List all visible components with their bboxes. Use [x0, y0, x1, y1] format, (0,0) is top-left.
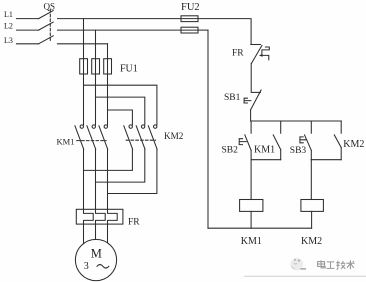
wire KM2 contact f output joining phase C: [108, 149, 157, 193]
svg-text:KM1: KM1: [241, 236, 262, 247]
wire KM2 contact d output joining phase A: [84, 149, 133, 170]
wire crossover phase B to KM2 contact e: [96, 97, 145, 125]
coil KM2 body: [301, 200, 324, 212]
svg-text:KM1: KM1: [57, 137, 75, 147]
thermal relay FR heater element phase C: [108, 209, 118, 224]
switch QS pole 3 blade: [39, 36, 54, 44]
wire SB1 to control rail: [250, 110, 252, 121]
contactor KM1 main contact 2 circle: [92, 125, 95, 128]
fuse FU2a link wire: [181, 18, 198, 20]
contactor KM2 linkage dashed: [126, 139, 155, 141]
fuse FU1 phase C body: [104, 59, 112, 74]
contactor KM1 main contact 2 blade: [87, 126, 96, 149]
wire control bottom bus: [208, 227, 312, 229]
wire merge bar SB2 KM1aux: [251, 159, 281, 161]
wire phase B FR to motor: [95, 224, 97, 239]
wire L1 incoming: [17, 18, 39, 20]
fuse FU1 phase A body: [80, 59, 88, 74]
contact KM2 auxiliary NO blade: [334, 135, 341, 148]
svg-text:L2: L2: [4, 21, 13, 30]
watermark text dian gong ji shu: [318, 260, 355, 269]
wire L2 fuse FU2b output to control left rail corner: [198, 29, 208, 31]
contactor KM2 main contact f circle: [154, 125, 157, 128]
svg-text:M: M: [91, 246, 102, 260]
svg-text:FR: FR: [128, 218, 140, 228]
wire phase C FR to motor: [107, 224, 109, 243]
switch QS linkage dashed: [49, 10, 51, 41]
wire phase C lower KM1 to FR heater: [107, 149, 109, 209]
contact KM1 auxiliary NO blade: [273, 135, 281, 150]
wire crossover phase A to KM2 contact f: [84, 85, 157, 125]
svg-text:SB1: SB1: [224, 93, 241, 103]
wire coil KM2 to bottom bus: [311, 211, 313, 228]
wire L1 from QS to FU2 and node to phase A: [58, 18, 182, 20]
wire coil KM1 to bottom bus: [250, 211, 252, 228]
watermark underline: [244, 275, 366, 277]
button SB1 NC blade: [251, 90, 262, 110]
contactor KM1 main contact 3 circle: [104, 125, 107, 128]
contactor KM2 main contact d blade: [124, 126, 133, 149]
wire phase B lower KM1 to FR heater: [95, 149, 97, 209]
fuse FU2b body: [181, 27, 198, 33]
switch QS pole 2 blade: [39, 22, 54, 30]
wire phase B vertical from L2 through FU1 to KM1 contact: [95, 30, 97, 125]
wire L2 incoming: [17, 29, 39, 31]
svg-text:KM2: KM2: [301, 236, 322, 247]
thermal relay FR heater box: [76, 209, 123, 224]
wire crossover phase C to KM2 contact d: [108, 110, 133, 125]
wire phase C vertical from L3 through FU1 to KM1 contact: [107, 44, 109, 125]
contactor KM2 main contact e circle: [141, 125, 144, 128]
wire merge bar SB3 KM2aux: [311, 159, 341, 161]
thermal relay FR NC contact arrow: [259, 54, 263, 57]
wire SB3 bottom: [310, 150, 312, 159]
contactor KM2 main contact e blade: [136, 126, 145, 149]
contactor KM1 main contact 1 circle: [80, 125, 83, 128]
svg-text:SB2: SB2: [222, 146, 239, 156]
button SB2 NO blade: [245, 135, 251, 151]
wire to coil KM2: [310, 160, 312, 200]
wire L1 fuse FU2a output to corner down to FR: [198, 19, 251, 44]
wire control top rail: [251, 120, 342, 122]
svg-text:FU2: FU2: [181, 2, 200, 13]
motor M body circle: [75, 239, 116, 280]
wire KM2 contact e output joining phase B: [96, 149, 145, 182]
thermal relay FR NC contact hook: [262, 47, 269, 60]
watermark logo blob: [291, 258, 307, 271]
button SB3 NO blade: [305, 135, 312, 150]
wire to coil KM1: [250, 160, 252, 200]
motor phase tilde: [97, 265, 109, 269]
thermal relay FR NC contact top tick: [251, 44, 261, 46]
fuse FU1 phase B body: [92, 59, 100, 74]
wire phase A FR to motor: [83, 224, 85, 244]
contactor KM1 main contact 3 blade: [99, 126, 108, 149]
svg-text:FU1: FU1: [120, 64, 138, 75]
wire KM1 auxiliary bottom: [280, 150, 282, 160]
wire phase A lower KM1 to FR heater: [83, 149, 85, 209]
wire SB2 bottom: [250, 150, 252, 159]
wire control left rail: [207, 30, 209, 228]
wire phase A vertical from L1 through FU1 to KM1 contact: [83, 19, 85, 125]
svg-text:SB3: SB3: [290, 146, 307, 156]
button SB1 NC tick: [251, 91, 260, 93]
wire L3 from QS to phase C tap: [58, 43, 108, 45]
thermal relay FR heater element phase B: [96, 209, 106, 224]
switch QS pole 1 blade: [39, 11, 54, 19]
svg-text:3: 3: [84, 261, 89, 272]
svg-text:FR: FR: [232, 49, 244, 59]
svg-text:KM1: KM1: [254, 144, 275, 155]
fuse FU2a body: [181, 16, 198, 22]
contactor KM2 main contact d circle: [129, 125, 132, 128]
contact KM1 auxiliary top wire: [280, 121, 282, 133]
contactor KM2 main contact f blade: [148, 126, 157, 149]
coil KM1 body: [240, 200, 263, 212]
wire L2 from QS to FU2b: [58, 29, 182, 31]
button SB1 operator: [244, 98, 251, 103]
wire L3 incoming: [17, 43, 39, 45]
button SB2 top wire: [250, 121, 252, 133]
button SB2 operator: [239, 139, 246, 145]
contactor KM1 linkage dashed: [77, 140, 106, 142]
fuse FU2b link wire: [181, 29, 198, 31]
contactor KM1 main contact 1 blade: [75, 126, 84, 149]
svg-text:L3: L3: [4, 36, 13, 45]
thermal relay FR heater element phase A: [84, 209, 94, 224]
contact KM2 auxiliary top wire: [340, 121, 342, 133]
svg-text:KM2: KM2: [343, 139, 364, 150]
button SB3 operator: [300, 137, 307, 143]
thermal relay FR NC contact blade: [252, 46, 262, 64]
wire FR contact to SB1: [250, 63, 252, 92]
svg-text:KM2: KM2: [164, 131, 184, 141]
button SB3 top wire: [310, 121, 312, 133]
wire KM2 auxiliary bottom: [340, 148, 342, 160]
svg-text:L1: L1: [4, 10, 13, 19]
